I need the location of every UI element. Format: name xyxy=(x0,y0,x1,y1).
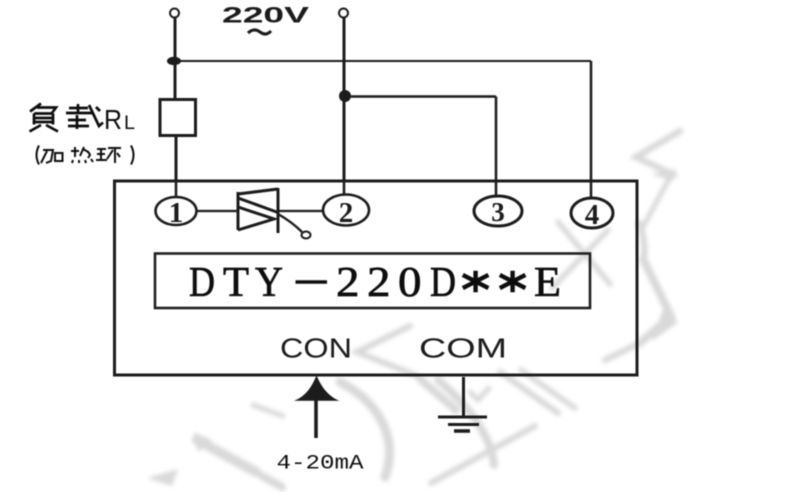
wire: vertical down to pin 4 xyxy=(590,61,593,181)
svg-text:COM: COM xyxy=(419,333,507,364)
triac gate lead xyxy=(278,214,302,232)
wire: left supply vertical to resistor xyxy=(174,18,177,100)
pin stub 2 xyxy=(343,181,346,195)
svg-text:R: R xyxy=(104,104,122,135)
pin 1 terminal xyxy=(156,197,197,225)
wire: right supply vertical to pin 2 xyxy=(343,18,346,182)
wire: top horizontal to pin 4 xyxy=(175,60,591,62)
AC tilde symbol xyxy=(248,30,271,34)
pin 4 terminal xyxy=(571,198,613,228)
pin stub 3 xyxy=(495,181,498,196)
asterisk 1 xyxy=(463,271,489,293)
svg-text:L: L xyxy=(124,113,135,134)
pin stub 4 xyxy=(590,181,593,198)
module box DTY-220D**E xyxy=(115,181,638,375)
terminal: right AC supply xyxy=(339,9,348,18)
wire: pin1 to triac xyxy=(197,210,239,212)
pin stub 1 xyxy=(175,181,178,197)
svg-text:D: D xyxy=(189,260,215,306)
wire: resistor to pin 1 xyxy=(175,136,178,182)
svg-text:T: T xyxy=(223,260,249,306)
type label box xyxy=(155,254,590,309)
terminal: left AC supply xyxy=(170,9,179,18)
svg-text:2: 2 xyxy=(336,260,360,306)
svg-text:2: 2 xyxy=(367,260,391,306)
svg-text:D: D xyxy=(430,260,456,306)
label (加热环) xyxy=(37,146,134,165)
resistor RL (load) xyxy=(160,100,196,136)
svg-text:220V: 220V xyxy=(222,2,310,27)
svg-text:1: 1 xyxy=(169,197,184,229)
label DTY-220D**E xyxy=(189,260,561,306)
svg-text:4-20mA: 4-20mA xyxy=(277,453,364,476)
node: junction right xyxy=(339,90,351,102)
svg-text:2: 2 xyxy=(339,197,354,229)
svg-text:0: 0 xyxy=(398,260,422,306)
wire: horizontal to pin 3 xyxy=(344,95,496,98)
label 负载RL xyxy=(30,104,104,132)
ground stem xyxy=(462,377,465,417)
asterisk 2 xyxy=(500,271,526,293)
svg-text:E: E xyxy=(534,260,561,306)
gate terminal circle xyxy=(302,232,311,239)
svg-text:Y: Y xyxy=(255,260,283,306)
input arrow 4-20mA xyxy=(294,376,340,401)
svg-text:CON: CON xyxy=(280,333,352,364)
wire: vertical down to pin 3 xyxy=(495,97,498,182)
pin 2 terminal xyxy=(323,195,369,226)
pin 3 terminal xyxy=(474,196,522,226)
node: junction left xyxy=(167,57,181,65)
svg-text:4: 4 xyxy=(585,199,600,231)
arrow shaft xyxy=(314,398,318,438)
svg-text:3: 3 xyxy=(491,197,505,227)
triac U1 xyxy=(238,188,278,233)
ground symbol xyxy=(438,416,487,419)
wire: triac to pin2 xyxy=(278,210,323,212)
